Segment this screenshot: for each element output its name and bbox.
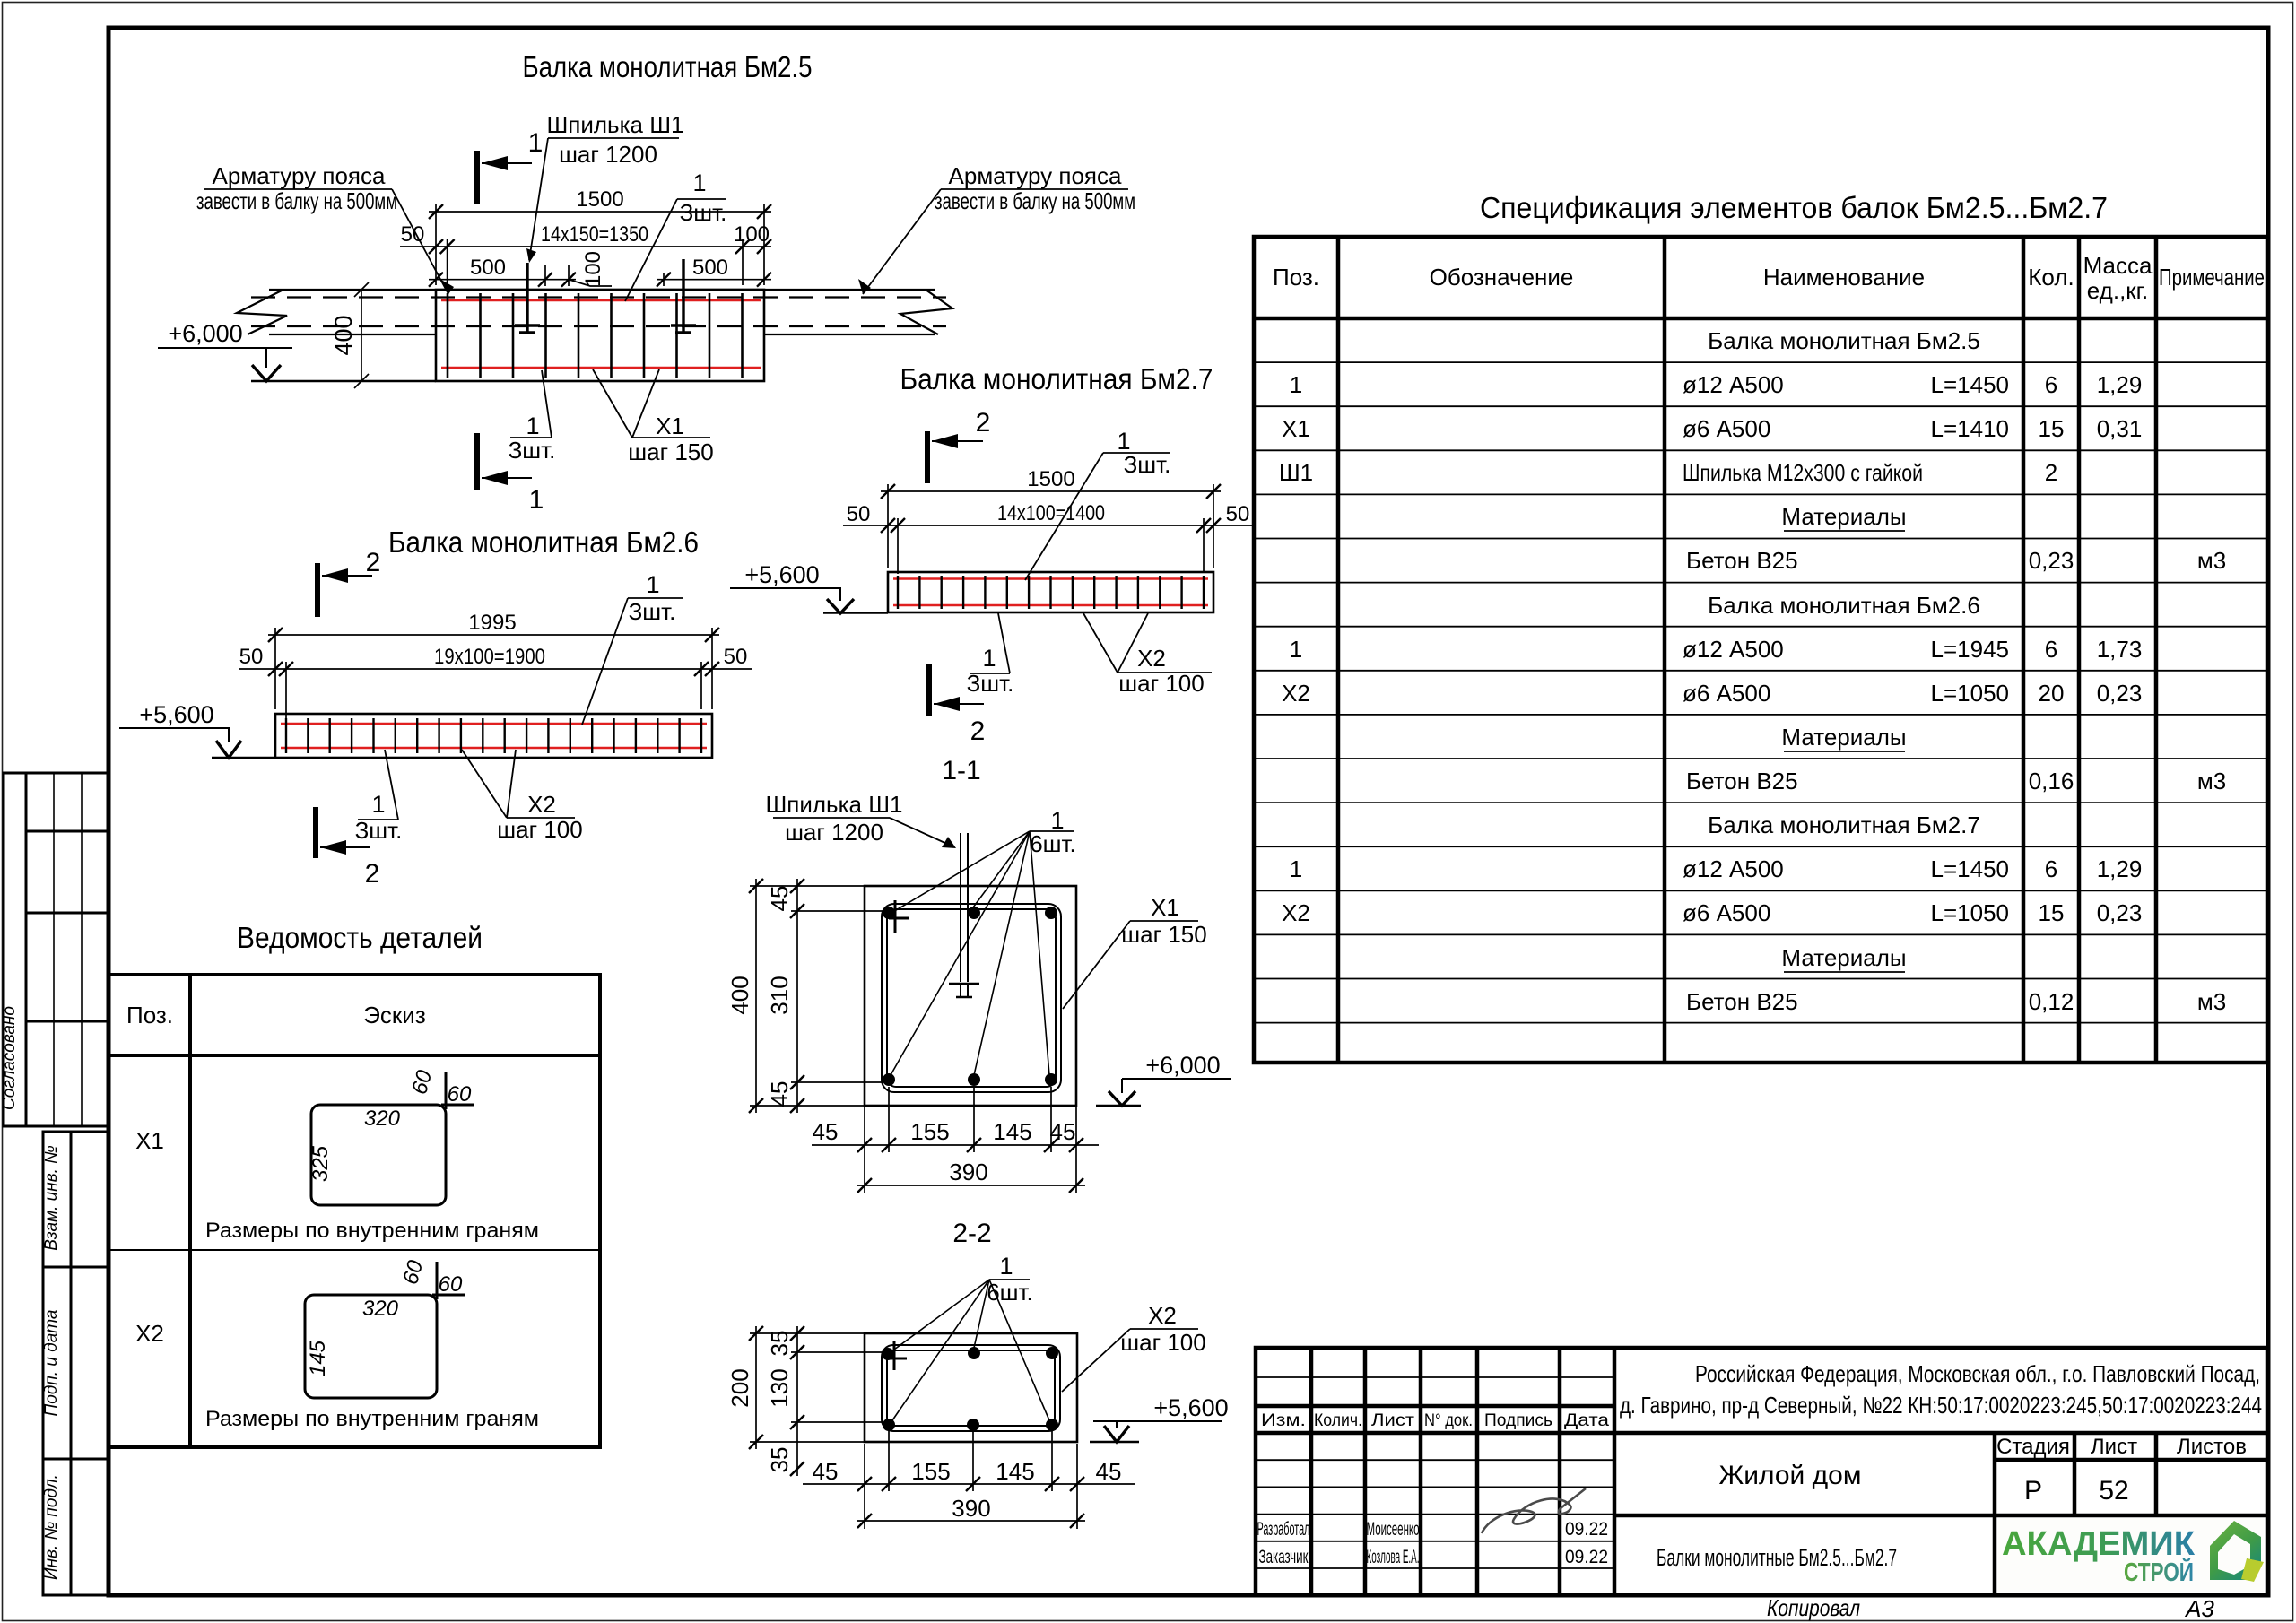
svg-text:L=1450: L=1450 xyxy=(1931,855,2009,882)
svg-text:Наименование: Наименование xyxy=(1763,264,1925,291)
svg-text:Х2: Х2 xyxy=(1282,899,1310,926)
svg-text:Обозначение: Обозначение xyxy=(1430,264,1574,291)
svg-text:100: 100 xyxy=(734,222,770,247)
svg-text:Балка монолитная Бм2.6: Балка монолитная Бм2.6 xyxy=(1708,592,1980,619)
svg-text:L=1050: L=1050 xyxy=(1931,680,2009,707)
svg-text:1,73: 1,73 xyxy=(2097,636,2143,663)
svg-text:шаг 100: шаг 100 xyxy=(1120,1329,1205,1356)
svg-text:0,23: 0,23 xyxy=(2097,680,2143,707)
svg-text:Зшт.: Зшт. xyxy=(355,817,403,844)
svg-text:Материалы: Материалы xyxy=(1781,944,1906,971)
svg-text:Зшт.: Зшт. xyxy=(629,598,676,625)
svg-text:15: 15 xyxy=(2039,415,2065,442)
svg-text:Зшт.: Зшт. xyxy=(509,437,556,464)
svg-text:400: 400 xyxy=(726,976,753,1014)
svg-text:Шпилька М12х300 с гайкой: Шпилька М12х300 с гайкой xyxy=(1683,459,1923,486)
svg-text:Арматуру пояса: Арматуру пояса xyxy=(213,162,386,189)
svg-text:1: 1 xyxy=(526,412,539,439)
svg-text:Балка монолитная Бм2.7: Балка монолитная Бм2.7 xyxy=(1708,811,1980,838)
svg-text:Р: Р xyxy=(2024,1476,2042,1506)
svg-text:45: 45 xyxy=(766,1081,793,1107)
svg-text:Ш1: Ш1 xyxy=(1279,459,1313,486)
svg-text:Подпись: Подпись xyxy=(1484,1411,1552,1430)
svg-text:Поз.: Поз. xyxy=(1273,264,1319,291)
svg-text:52: 52 xyxy=(2099,1476,2128,1506)
svg-text:Ведомость деталей: Ведомость деталей xyxy=(237,921,483,954)
svg-text:Взам. инв. №: Взам. инв. № xyxy=(42,1145,61,1251)
svg-text:Х2: Х2 xyxy=(1148,1302,1177,1329)
svg-text:Дата: Дата xyxy=(1564,1411,1610,1430)
svg-text:L=1410: L=1410 xyxy=(1931,415,2009,442)
svg-text:завести в балку на 500мм: завести в балку на 500мм xyxy=(196,187,397,214)
svg-text:СТРОЙ: СТРОЙ xyxy=(2124,1557,2194,1587)
svg-text:Примечание: Примечание xyxy=(2159,264,2265,291)
svg-text:Х2: Х2 xyxy=(1282,680,1310,707)
svg-text:ø12 А500: ø12 А500 xyxy=(1683,855,1784,882)
svg-text:1: 1 xyxy=(692,169,706,196)
svg-text:Бетон В25: Бетон В25 xyxy=(1686,988,1798,1015)
svg-text:Х1: Х1 xyxy=(656,412,684,439)
svg-text:Х2: Х2 xyxy=(135,1320,164,1347)
svg-text:+6,000: +6,000 xyxy=(1145,1052,1220,1079)
svg-text:60: 60 xyxy=(439,1272,463,1297)
svg-text:500: 500 xyxy=(470,256,506,280)
svg-text:L=1450: L=1450 xyxy=(1931,371,2009,398)
svg-text:Балка монолитная Бм2.6: Балка монолитная Бм2.6 xyxy=(388,525,699,559)
svg-text:35: 35 xyxy=(766,1331,793,1357)
svg-text:Изм.: Изм. xyxy=(1261,1411,1306,1430)
svg-text:1: 1 xyxy=(982,645,996,672)
svg-text:1: 1 xyxy=(371,791,385,818)
svg-text:50: 50 xyxy=(847,502,871,526)
svg-text:завести в балку на 500мм: завести в балку на 500мм xyxy=(935,187,1135,214)
svg-text:14x150=1350: 14x150=1350 xyxy=(541,222,648,247)
svg-text:+5,600: +5,600 xyxy=(1153,1394,1228,1421)
svg-text:310: 310 xyxy=(766,976,793,1014)
svg-text:1: 1 xyxy=(999,1253,1013,1280)
svg-text:д. Гаврино, пр-д Северный, №22: д. Гаврино, пр-д Северный, №22 КН:50:17:… xyxy=(1620,1392,2262,1419)
svg-text:ø12 А500: ø12 А500 xyxy=(1683,636,1784,663)
svg-text:1995: 1995 xyxy=(468,611,516,635)
svg-text:1,29: 1,29 xyxy=(2097,371,2143,398)
svg-text:390: 390 xyxy=(952,1495,990,1522)
svg-text:Поз.: Поз. xyxy=(126,1002,173,1028)
svg-text:50: 50 xyxy=(239,645,264,669)
svg-text:Балка монолитная Бм2.5: Балка монолитная Бм2.5 xyxy=(523,50,813,83)
svg-text:Арматуру пояса: Арматуру пояса xyxy=(949,162,1122,189)
svg-text:ø12 А500: ø12 А500 xyxy=(1683,371,1784,398)
svg-text:6: 6 xyxy=(2045,371,2057,398)
svg-text:1500: 1500 xyxy=(1027,467,1074,491)
svg-text:ø6 А500: ø6 А500 xyxy=(1683,899,1770,926)
svg-text:Зшт.: Зшт. xyxy=(680,199,727,226)
svg-text:45: 45 xyxy=(1096,1458,1122,1485)
svg-text:N° док.: N° док. xyxy=(1424,1411,1473,1430)
svg-text:ø6 А500: ø6 А500 xyxy=(1683,415,1770,442)
svg-text:19x100=1900: 19x100=1900 xyxy=(434,645,545,669)
svg-text:Х2: Х2 xyxy=(527,791,556,818)
svg-text:+6,000: +6,000 xyxy=(168,320,242,347)
svg-text:1: 1 xyxy=(1290,371,1302,398)
svg-text:45: 45 xyxy=(1050,1118,1076,1145)
svg-text:1500: 1500 xyxy=(576,187,623,212)
svg-text:шаг 150: шаг 150 xyxy=(628,438,713,465)
svg-text:L=1050: L=1050 xyxy=(1931,899,2009,926)
svg-text:100: 100 xyxy=(581,251,605,287)
svg-text:500: 500 xyxy=(692,256,728,280)
svg-text:Зшт.: Зшт. xyxy=(967,670,1014,697)
svg-text:Балка монолитная Бм2.7: Балка монолитная Бм2.7 xyxy=(900,362,1213,395)
svg-text:0,31: 0,31 xyxy=(2097,415,2143,442)
svg-text:Согласовано: Согласовано xyxy=(0,1006,19,1110)
svg-text:Балки монолитные Бм2.5...Бм2.7: Балки монолитные Бм2.5...Бм2.7 xyxy=(1657,1544,1897,1571)
svg-text:2: 2 xyxy=(976,408,991,438)
svg-text:390: 390 xyxy=(949,1159,987,1185)
svg-text:14x100=1400: 14x100=1400 xyxy=(997,501,1105,525)
svg-text:ед.,кг.: ед.,кг. xyxy=(2087,277,2148,304)
svg-text:Подп. и дата: Подп. и дата xyxy=(42,1310,61,1417)
svg-text:Лист: Лист xyxy=(2091,1435,2137,1459)
svg-text:Бетон В25: Бетон В25 xyxy=(1686,768,1798,794)
svg-text:145: 145 xyxy=(996,1458,1034,1485)
svg-text:Инв. № подл.: Инв. № подл. xyxy=(42,1474,61,1580)
svg-text:Масса: Масса xyxy=(2083,252,2152,279)
svg-text:Кол.: Кол. xyxy=(2028,264,2074,291)
svg-text:Листов: Листов xyxy=(2177,1435,2247,1459)
svg-text:1: 1 xyxy=(529,485,544,515)
svg-text:6шт.: 6шт. xyxy=(1030,830,1076,857)
svg-text:0,23: 0,23 xyxy=(2029,547,2074,574)
svg-text:6: 6 xyxy=(2045,636,2057,663)
svg-text:Х1: Х1 xyxy=(135,1127,164,1154)
svg-text:1: 1 xyxy=(1290,855,1302,882)
svg-text:200: 200 xyxy=(726,1368,753,1407)
svg-text:Моисеенко: Моисеенко xyxy=(1367,1519,1420,1540)
svg-text:2: 2 xyxy=(365,859,380,889)
svg-text:Х1: Х1 xyxy=(1282,415,1310,442)
svg-text:320: 320 xyxy=(364,1107,401,1131)
svg-text:2: 2 xyxy=(366,548,381,577)
svg-text:м3: м3 xyxy=(2197,547,2226,574)
svg-text:155: 155 xyxy=(910,1118,949,1145)
svg-text:130: 130 xyxy=(766,1368,793,1407)
svg-text:м3: м3 xyxy=(2197,768,2226,794)
svg-text:09.22: 09.22 xyxy=(1565,1547,1608,1567)
svg-text:шаг 100: шаг 100 xyxy=(1118,670,1204,697)
svg-text:20: 20 xyxy=(2039,680,2065,707)
svg-text:Жилой дом: Жилой дом xyxy=(1719,1461,1862,1490)
svg-text:шаг 1200: шаг 1200 xyxy=(559,141,657,168)
svg-text:145: 145 xyxy=(306,1340,330,1376)
svg-text:1,29: 1,29 xyxy=(2097,855,2143,882)
svg-text:шаг 100: шаг 100 xyxy=(497,816,582,843)
svg-text:0,16: 0,16 xyxy=(2029,768,2074,794)
svg-text:+5,600: +5,600 xyxy=(744,561,819,588)
svg-text:L=1945: L=1945 xyxy=(1931,636,2009,663)
svg-text:шаг 1200: шаг 1200 xyxy=(785,819,883,846)
svg-text:6шт.: 6шт. xyxy=(987,1279,1033,1306)
svg-text:Материалы: Материалы xyxy=(1781,503,1906,530)
svg-text:Х1: Х1 xyxy=(1151,894,1179,921)
svg-text:400: 400 xyxy=(330,315,357,355)
svg-text:2-2: 2-2 xyxy=(952,1219,991,1248)
svg-text:155: 155 xyxy=(911,1458,950,1485)
svg-text:09.22: 09.22 xyxy=(1565,1519,1608,1540)
svg-text:1: 1 xyxy=(646,571,659,598)
svg-text:Х2: Х2 xyxy=(1137,645,1166,672)
svg-text:Бетон В25: Бетон В25 xyxy=(1686,547,1798,574)
svg-text:145: 145 xyxy=(993,1118,1031,1145)
svg-text:1-1: 1-1 xyxy=(942,756,980,785)
svg-text:0,12: 0,12 xyxy=(2029,988,2074,1015)
svg-text:45: 45 xyxy=(813,1458,839,1485)
svg-text:Размеры по внутренним граням: Размеры по внутренним граням xyxy=(205,1219,539,1243)
svg-text:Размеры по внутренним граням: Размеры по внутренним граням xyxy=(205,1407,539,1431)
svg-text:Материалы: Материалы xyxy=(1781,724,1906,751)
svg-text:0,23: 0,23 xyxy=(2097,899,2143,926)
svg-text:1: 1 xyxy=(528,128,544,158)
svg-text:Лист: Лист xyxy=(1371,1411,1414,1430)
svg-text:Шпилька Ш1: Шпилька Ш1 xyxy=(765,791,902,818)
svg-text:Российская Федерация, Московск: Российская Федерация, Московская обл., г… xyxy=(1695,1360,2260,1387)
svg-text:1: 1 xyxy=(1290,636,1302,663)
svg-text:Спецификация элементов балок Б: Спецификация элементов балок Бм2.5...Бм2… xyxy=(1480,191,2108,224)
svg-text:35: 35 xyxy=(766,1447,793,1473)
svg-text:60: 60 xyxy=(448,1082,472,1107)
svg-text:ø6 А500: ø6 А500 xyxy=(1683,680,1770,707)
svg-text:2: 2 xyxy=(970,716,986,746)
svg-text:45: 45 xyxy=(813,1118,839,1145)
svg-text:А3: А3 xyxy=(2184,1595,2214,1622)
svg-text:Эскиз: Эскиз xyxy=(363,1002,426,1028)
svg-text:50: 50 xyxy=(1226,502,1250,526)
svg-text:15: 15 xyxy=(2039,899,2065,926)
svg-text:Стадия: Стадия xyxy=(1996,1435,2070,1459)
svg-text:Шпилька Ш1: Шпилька Ш1 xyxy=(546,111,683,138)
svg-text:АКАДЕМИК: АКАДЕМИК xyxy=(2002,1525,2196,1563)
svg-text:50: 50 xyxy=(724,645,748,669)
svg-text:320: 320 xyxy=(362,1297,399,1321)
svg-text:Колич.: Колич. xyxy=(1314,1411,1362,1430)
svg-text:325: 325 xyxy=(309,1145,333,1182)
svg-text:м3: м3 xyxy=(2197,988,2226,1015)
svg-text:Козлова Е.А.: Козлова Е.А. xyxy=(1367,1547,1420,1567)
svg-text:6: 6 xyxy=(2045,855,2057,882)
svg-text:Копировал: Копировал xyxy=(1767,1594,1860,1621)
svg-text:Заказчик: Заказчик xyxy=(1259,1547,1309,1567)
svg-text:Зшт.: Зшт. xyxy=(1124,451,1171,478)
svg-text:Разработал: Разработал xyxy=(1257,1519,1310,1540)
svg-text:45: 45 xyxy=(766,886,793,912)
svg-text:+5,600: +5,600 xyxy=(139,701,213,728)
svg-text:2: 2 xyxy=(2045,459,2057,486)
svg-text:шаг 150: шаг 150 xyxy=(1121,921,1206,948)
svg-text:Балка монолитная Бм2.5: Балка монолитная Бм2.5 xyxy=(1708,327,1980,354)
